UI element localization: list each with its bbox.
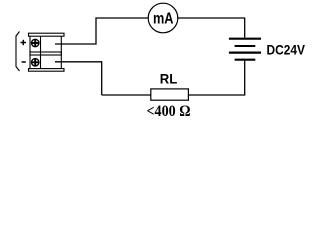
wire battery negative lead to bottom rail bbox=[188, 61, 244, 95]
wire positive terminal to top rail bbox=[55, 18, 148, 44]
label - bbox=[22, 61, 26, 63]
battery BT1 bbox=[229, 39, 261, 60]
svg-text:<400 Ω: <400 Ω bbox=[147, 103, 191, 120]
polarity bracket bbox=[16, 32, 20, 72]
svg-text:DC24V: DC24V bbox=[267, 42, 306, 58]
screw terminal + bbox=[32, 39, 39, 46]
label + bbox=[21, 40, 27, 45]
ammeter M1 bbox=[148, 3, 178, 33]
wire bottom rail to resistor bbox=[102, 94, 151, 96]
resistor RL bbox=[151, 89, 189, 100]
wire negative terminal to bottom rail bbox=[55, 62, 102, 95]
terminal block TB1 body bbox=[29, 33, 65, 71]
svg-text:mA: mA bbox=[153, 11, 174, 28]
wire top rail meter to battery bbox=[178, 18, 245, 38]
screw terminal - bbox=[32, 59, 39, 66]
svg-text:RL: RL bbox=[160, 71, 178, 87]
